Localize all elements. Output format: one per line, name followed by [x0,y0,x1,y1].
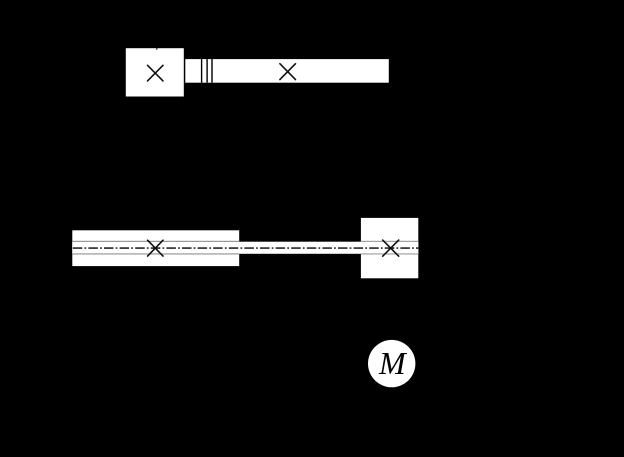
shaft S1 (top horizontal bar) [185,59,388,83]
shaft outline line lower (over drum D1) [72,253,239,254]
motor M (circle) [368,340,415,387]
tick on top edge of B1 [156,48,158,49]
coupling hatch line 3 [211,59,212,83]
shaft outline line lower (over block B2) [361,253,418,254]
bearing cross X3 (on drum D1) [148,240,163,256]
bearing cross X1 (inside B1) [148,65,164,81]
coupling hatch line 1 [201,59,202,83]
bearing block B1 (top-left square) [126,48,184,96]
drum D1 (middle wide bar) [72,230,239,266]
shaft S2 (middle thin shaft band) [72,242,418,254]
shaft outline line upper (over drum D1) [72,241,239,242]
bearing block B2 (middle-right square) [361,218,418,278]
bearing cross X2 (on shaft S1) [280,64,296,80]
bearing cross X4 (in block B2) [383,240,399,256]
coupling hatch line 2 [206,59,207,83]
shaft outline line upper (over block B2) [361,241,418,242]
svg-text:M: M [378,345,408,381]
centerline (dash-dot axis) [73,247,419,249]
